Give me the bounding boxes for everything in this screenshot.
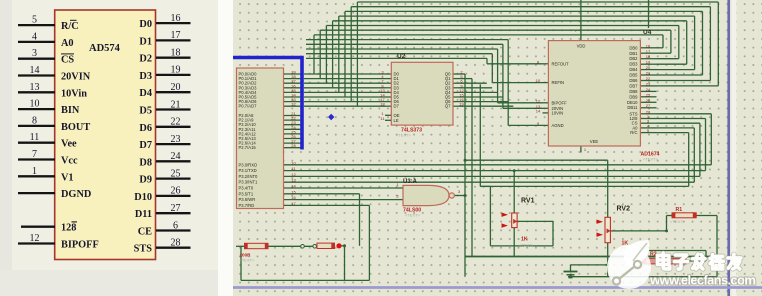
svg-text:21: 21 — [646, 71, 651, 76]
svg-text:BIN: BIN — [61, 105, 80, 116]
svg-text:18: 18 — [380, 102, 385, 107]
svg-text:23: 23 — [646, 81, 651, 86]
svg-text:REFIN: REFIN — [552, 80, 565, 85]
svg-text:DB0: DB0 — [629, 45, 638, 50]
svg-text:VEE: VEE — [590, 139, 599, 144]
svg-text:P3.0/RXD: P3.0/RXD — [239, 162, 258, 167]
svg-text:11: 11 — [30, 132, 40, 143]
svg-text:24: 24 — [171, 151, 181, 162]
svg-text:D7: D7 — [394, 104, 400, 109]
svg-text:20VIN: 20VIN — [61, 72, 91, 83]
svg-text:VDD: VDD — [577, 44, 586, 49]
svg-text:10: 10 — [30, 99, 40, 110]
svg-text:Vcc: Vcc — [61, 156, 78, 167]
svg-text:D1: D1 — [139, 36, 152, 47]
svg-text:12: 12 — [291, 172, 296, 177]
svg-text:R/C: R/C — [61, 21, 79, 32]
svg-text:17: 17 — [646, 49, 651, 54]
svg-text:28: 28 — [171, 238, 181, 249]
svg-text:A0: A0 — [61, 38, 74, 49]
svg-text:DB6: DB6 — [629, 78, 638, 83]
svg-text:14: 14 — [291, 184, 296, 189]
svg-text:26: 26 — [646, 98, 651, 103]
svg-text:DB3: DB3 — [629, 62, 638, 67]
svg-text:25: 25 — [171, 168, 181, 179]
svg-text:D10: D10 — [134, 192, 152, 203]
svg-text:<TEXT>: <TEXT> — [405, 213, 421, 218]
svg-text:D5: D5 — [139, 106, 152, 117]
svg-text:U3:A: U3:A — [403, 179, 418, 185]
svg-text:16: 16 — [646, 43, 651, 48]
svg-text:DB7: DB7 — [629, 83, 638, 88]
svg-text:<TEXT>: <TEXT> — [396, 133, 412, 138]
svg-text:4: 4 — [32, 31, 37, 42]
svg-text:12: 12 — [536, 98, 541, 103]
svg-text:REFOUT: REFOUT — [552, 61, 570, 66]
svg-text:DB4: DB4 — [629, 67, 638, 72]
svg-text:V1: V1 — [61, 172, 74, 183]
svg-text:<TEXT>: <TEXT> — [670, 219, 686, 224]
svg-text:17: 17 — [291, 201, 296, 206]
svg-text:D9: D9 — [139, 175, 152, 186]
svg-text:12: 12 — [30, 233, 40, 244]
svg-text:DB1: DB1 — [629, 51, 638, 56]
svg-text:27: 27 — [646, 103, 651, 108]
svg-text:P3.3/INT1: P3.3/INT1 — [239, 180, 259, 185]
svg-text:128: 128 — [61, 223, 76, 234]
svg-text:R1: R1 — [676, 207, 683, 213]
svg-text:P3.7/RD: P3.7/RD — [239, 203, 255, 208]
svg-text:28: 28 — [291, 143, 296, 148]
svg-text:13: 13 — [30, 82, 40, 93]
svg-text:22: 22 — [171, 117, 181, 128]
svg-text:U2: U2 — [397, 53, 406, 60]
svg-text:BOUT: BOUT — [61, 122, 90, 133]
svg-text:D4: D4 — [139, 88, 152, 99]
svg-text:P0.7/AD7: P0.7/AD7 — [239, 104, 258, 109]
svg-text:15: 15 — [291, 189, 296, 194]
svg-text:STS: STS — [134, 244, 153, 255]
svg-text:D6: D6 — [139, 123, 152, 134]
svg-text:23: 23 — [171, 134, 181, 145]
svg-text:22: 22 — [646, 76, 651, 81]
svg-text:RV2: RV2 — [617, 206, 631, 213]
svg-text:26: 26 — [171, 186, 181, 197]
svg-text:19: 19 — [646, 60, 651, 65]
svg-text:13: 13 — [291, 178, 296, 183]
svg-text:27: 27 — [171, 203, 181, 214]
svg-text:CE: CE — [138, 227, 152, 238]
svg-text:CS: CS — [61, 55, 74, 66]
svg-text:R/C: R/C — [630, 130, 637, 135]
svg-text:10: 10 — [536, 78, 541, 83]
svg-text:U4: U4 — [643, 29, 652, 36]
svg-text:D0: D0 — [139, 19, 152, 30]
svg-text:<TEXT>: <TEXT> — [240, 258, 256, 263]
svg-text:P3.5/T1: P3.5/T1 — [239, 191, 254, 196]
svg-text:5: 5 — [32, 15, 37, 26]
svg-text:16: 16 — [171, 13, 181, 24]
svg-text:D8: D8 — [139, 157, 152, 168]
svg-text:D11: D11 — [135, 209, 152, 220]
svg-text:19: 19 — [459, 102, 464, 107]
svg-text:24: 24 — [646, 87, 651, 92]
svg-text:1: 1 — [32, 166, 37, 177]
svg-text:10Vin: 10Vin — [61, 88, 87, 99]
svg-text:BIPOFF: BIPOFF — [61, 240, 99, 251]
svg-text:14: 14 — [30, 65, 40, 76]
svg-text:32: 32 — [291, 102, 296, 107]
svg-text:18: 18 — [171, 48, 181, 59]
svg-text:D7: D7 — [139, 140, 152, 151]
svg-text:D3: D3 — [139, 71, 152, 82]
svg-text:25: 25 — [646, 92, 651, 97]
svg-text:17: 17 — [171, 30, 181, 41]
svg-text:DB8: DB8 — [629, 89, 638, 94]
svg-text:P3.2/INT0: P3.2/INT0 — [239, 174, 259, 179]
svg-text:P3.1/TXD: P3.1/TXD — [239, 168, 257, 173]
svg-text:AGND: AGND — [552, 123, 564, 128]
svg-text:<TEXT>: <TEXT> — [519, 243, 535, 248]
svg-text:14: 14 — [536, 108, 541, 113]
svg-text:Q7: Q7 — [445, 104, 451, 109]
svg-text:18: 18 — [646, 54, 651, 59]
svg-text:D2: D2 — [139, 54, 152, 65]
svg-text:DB10: DB10 — [627, 100, 638, 105]
svg-text:16: 16 — [291, 195, 296, 200]
svg-text:10VIN: 10VIN — [552, 110, 564, 115]
svg-text:www.elecfans.com: www.elecfans.com — [649, 273, 756, 288]
svg-text:LE: LE — [394, 118, 399, 123]
svg-text:P3.6/WR: P3.6/WR — [239, 197, 256, 202]
svg-text:BIPOFF: BIPOFF — [552, 100, 568, 105]
svg-text:10: 10 — [291, 160, 296, 165]
svg-text:<TEXT>: <TEXT> — [643, 157, 659, 162]
svg-text:6: 6 — [173, 220, 178, 231]
svg-text:Vee: Vee — [61, 139, 77, 150]
svg-text:RV1: RV1 — [521, 198, 535, 205]
svg-text:DB5: DB5 — [629, 73, 638, 78]
svg-text:P2.7/A15: P2.7/A15 — [239, 145, 257, 150]
svg-text:DGND: DGND — [61, 189, 91, 200]
svg-text:DB9: DB9 — [629, 94, 638, 99]
svg-text:3: 3 — [32, 48, 37, 59]
svg-text:DB11: DB11 — [627, 105, 638, 110]
svg-text:AD574: AD574 — [89, 43, 121, 54]
svg-text:20: 20 — [171, 82, 181, 93]
svg-text:8: 8 — [32, 115, 37, 126]
svg-text:20: 20 — [646, 65, 651, 70]
svg-text:19: 19 — [171, 65, 181, 76]
svg-text:21: 21 — [171, 99, 181, 110]
svg-text:7: 7 — [32, 149, 37, 160]
svg-text:DB2: DB2 — [629, 56, 638, 61]
svg-text:P3.4/T0: P3.4/T0 — [239, 186, 254, 191]
